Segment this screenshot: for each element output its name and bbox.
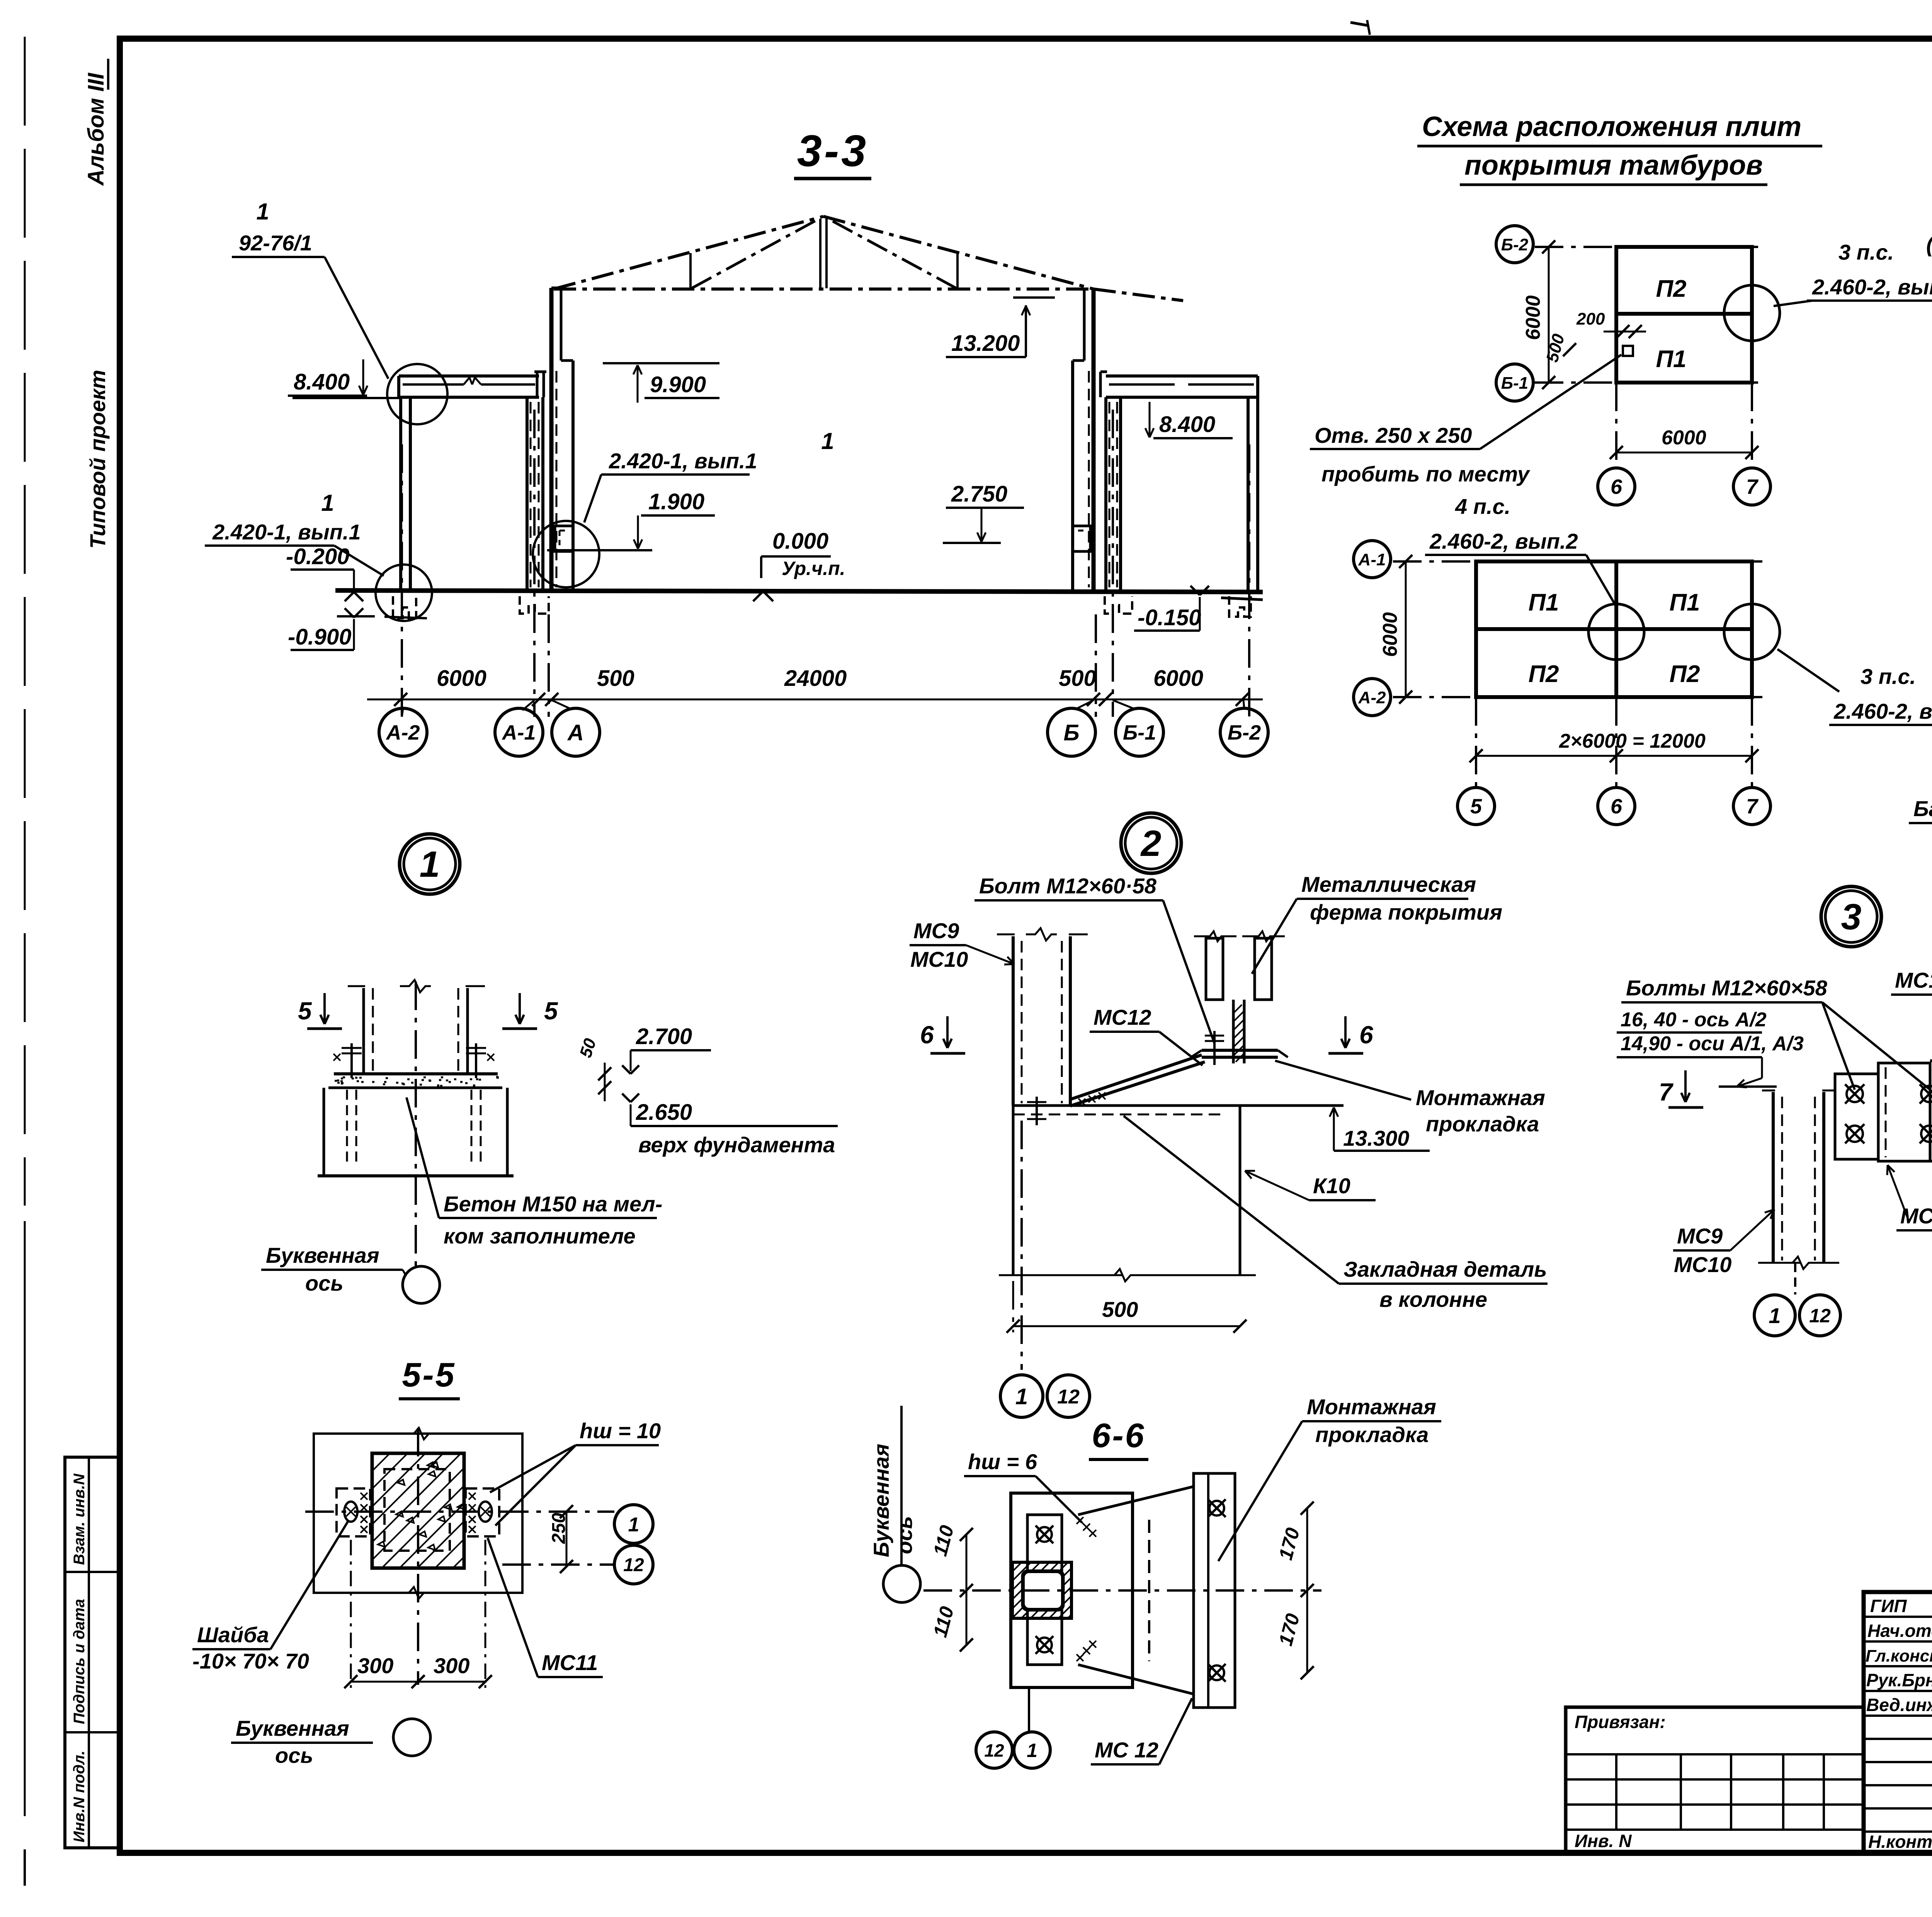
truss side posts xyxy=(689,253,692,288)
svg-text:-0.150: -0.150 xyxy=(1138,605,1201,630)
node3 axis bubbles 1 12 xyxy=(1754,1295,1795,1336)
svg-text:А: А xyxy=(567,720,584,745)
node3 axis dash-dot xyxy=(1794,1263,1796,1294)
axis line B-1 of plan xyxy=(1535,381,1766,384)
svg-text:Балка металлическая: Балка металлическая xyxy=(1913,796,1932,821)
svg-text:(шт. 30): (шт. 30) xyxy=(1926,232,1932,257)
title block name rows xyxy=(1864,1616,1932,1618)
svg-text:П1: П1 xyxy=(1669,589,1700,616)
svg-text:500: 500 xyxy=(1102,1297,1138,1322)
dim 2x6000=12000 xyxy=(1476,755,1752,757)
axis bubble B-1 plan xyxy=(1496,364,1533,401)
svg-text:92-76/1: 92-76/1 xyxy=(239,231,312,255)
crane console node 1 on wall A xyxy=(555,526,572,551)
svg-text:Б-1: Б-1 xyxy=(1123,721,1156,744)
svg-text:9.900: 9.900 xyxy=(650,372,706,397)
tambour roof slab left (A-2 to A) xyxy=(399,374,539,378)
svg-text:1: 1 xyxy=(1015,1384,1028,1409)
axis line B dash-dot xyxy=(1095,614,1097,717)
detail circle 4ps lower xyxy=(1588,604,1644,660)
ground line 0.000 xyxy=(335,590,1263,592)
svg-text:МС11: МС11 xyxy=(542,1650,598,1675)
node1 column shaft xyxy=(362,988,365,1074)
footing B-2 below ground xyxy=(1229,596,1251,617)
detail circle at footing A-2 xyxy=(376,565,432,621)
svg-text:П2: П2 xyxy=(1669,661,1700,687)
svg-text:4 п.с.: 4 п.с. xyxy=(1455,494,1510,519)
svg-text:6000: 6000 xyxy=(1153,666,1203,691)
svg-text:7: 7 xyxy=(1746,475,1759,498)
svg-text:Буквенная: Буквенная xyxy=(869,1444,893,1557)
5-5 centerline horizontal xyxy=(305,1510,614,1513)
svg-text:6000: 6000 xyxy=(1662,427,1706,449)
level line 8.400 tail xyxy=(293,397,402,399)
6-6 main body rect xyxy=(1011,1493,1133,1687)
truss center post xyxy=(819,219,821,288)
svg-text:прокладка: прокладка xyxy=(1426,1112,1539,1136)
svg-text:МС 12: МС 12 xyxy=(1095,1738,1158,1762)
5-5 axis circle empty xyxy=(393,1719,430,1756)
label 3 p.s. lower xyxy=(1777,649,1839,692)
svg-text:2.460-2, вып.2: 2.460-2, вып.2 xyxy=(1429,529,1578,553)
svg-text:2.460-2, вып.2: 2.460-2, вып.2 xyxy=(1833,699,1932,723)
axis bubble B-2 xyxy=(1220,708,1268,756)
svg-text:1: 1 xyxy=(420,844,440,885)
svg-text:200: 200 xyxy=(1576,310,1605,328)
vdim 6000 lower plan xyxy=(1405,561,1407,697)
svg-text:П2: П2 xyxy=(1528,661,1559,687)
svg-text:ось: ось xyxy=(892,1516,917,1554)
svg-text:1: 1 xyxy=(1769,1303,1781,1328)
svg-text:6: 6 xyxy=(920,1021,934,1049)
svg-text:8.400: 8.400 xyxy=(294,369,350,395)
paper edge line left xyxy=(24,37,26,1206)
node2 truss shoe plate xyxy=(1202,1049,1278,1052)
node2 truss chord angles xyxy=(1206,938,1223,1000)
tambour column B-2 xyxy=(1247,397,1250,590)
svg-text:МС12: МС12 xyxy=(1094,1005,1151,1029)
6-6 dashed rect inside xyxy=(1148,1520,1150,1661)
svg-text:А-2: А-2 xyxy=(385,721,420,744)
svg-text:5: 5 xyxy=(1470,795,1482,818)
svg-text:Альбом III: Альбом III xyxy=(83,72,109,186)
axis line B-1 dash-dot xyxy=(1112,410,1114,717)
svg-text:13.300: 13.300 xyxy=(1343,1126,1409,1150)
svg-text:Привязан:: Привязан: xyxy=(1575,1712,1666,1732)
truss bottom chord xyxy=(554,287,1094,291)
node3 bolts xyxy=(1847,1086,1863,1102)
svg-text:покрытия тамбуров: покрытия тамбуров xyxy=(1464,150,1763,181)
detail circle 3ps upper xyxy=(1724,285,1780,341)
title block outer border xyxy=(1864,1592,1932,1853)
svg-text:П1: П1 xyxy=(1656,346,1686,373)
node3 bracket plate 1 xyxy=(1835,1074,1878,1159)
node circle 3 xyxy=(1821,886,1881,947)
svg-text:6: 6 xyxy=(1611,475,1622,498)
node2 bolt at shoe xyxy=(1213,1031,1216,1065)
node2 truss web vertical xyxy=(1232,1000,1235,1063)
svg-text:500: 500 xyxy=(1059,666,1096,691)
truss diagonals xyxy=(692,219,819,288)
svg-text:1.900: 1.900 xyxy=(648,489,704,514)
svg-text:МС13: МС13 xyxy=(1900,1204,1932,1228)
svg-text:Инв.N подл.: Инв.N подл. xyxy=(71,1750,88,1842)
console node on wall B xyxy=(1073,526,1090,551)
node1 anchor bolts xyxy=(350,1043,353,1078)
svg-text:Типовой проект: Типовой проект xyxy=(85,370,110,549)
vdim 6000 upper plan xyxy=(1548,247,1550,383)
svg-text:Взам. инв.N: Взам. инв.N xyxy=(71,1473,88,1565)
axis stub 6 upper plan xyxy=(1615,383,1617,468)
node1 grout band speckled xyxy=(328,1087,502,1089)
svg-text:Болты М12×60×58: Болты М12×60×58 xyxy=(1626,976,1828,1000)
6-6 gusset trapezoid xyxy=(1078,1487,1194,1694)
axis line A-1 of plan xyxy=(1393,560,1766,563)
5-5 concrete speckles xyxy=(378,1462,464,1550)
detail circle at tambour eave xyxy=(387,364,447,424)
axis line A-1 dash-dot xyxy=(533,410,536,717)
top registration mark xyxy=(1350,22,1368,26)
6-6 flange plate inner xyxy=(1027,1515,1062,1665)
svg-text:8.400: 8.400 xyxy=(1159,412,1215,437)
svg-text:6000: 6000 xyxy=(437,666,486,691)
svg-text:Инв. N: Инв. N xyxy=(1575,1831,1632,1851)
svg-text:14,90 - оси А/1, А/3: 14,90 - оси А/1, А/3 xyxy=(1621,1032,1804,1055)
node2 axis dash-dot xyxy=(1020,1121,1023,1370)
wall axis B xyxy=(1092,288,1096,590)
svg-text:МС10: МС10 xyxy=(1674,1252,1731,1277)
5-5 column section hatched xyxy=(372,1453,464,1568)
svg-text:500: 500 xyxy=(597,666,634,691)
svg-text:5: 5 xyxy=(544,997,558,1025)
svg-text:3-3: 3-3 xyxy=(797,126,868,176)
svg-text:Закладная деталь: Закладная деталь xyxy=(1344,1257,1547,1281)
node2 top of concrete column line xyxy=(1013,1104,1344,1107)
column B-1 xyxy=(1104,397,1107,590)
column A-1 xyxy=(526,397,529,590)
svg-text:300: 300 xyxy=(357,1653,393,1678)
svg-text:МС9: МС9 xyxy=(913,919,959,943)
svg-text:2.750: 2.750 xyxy=(951,481,1007,507)
6-6 weld xmarks xyxy=(1077,1517,1096,1661)
6-6 bolts xyxy=(1037,1527,1052,1542)
svg-text:МС14: МС14 xyxy=(1895,968,1932,992)
svg-text:ось: ось xyxy=(305,1271,344,1295)
node2 bolt mark on column xyxy=(1036,1097,1038,1125)
tambour roof edge rib at wall B xyxy=(1100,371,1107,373)
5-5 embedded shaft dashed xyxy=(384,1469,450,1551)
svg-text:Гл.констр.: Гл.констр. xyxy=(1866,1647,1932,1665)
node1 axis circle empty xyxy=(403,1266,440,1303)
svg-text:Б: Б xyxy=(1063,720,1079,745)
svg-text:16, 40 - ось А/2: 16, 40 - ось А/2 xyxy=(1621,1009,1767,1031)
svg-text:Схема расположения плит: Схема расположения плит xyxy=(1422,111,1801,142)
6-6 right plate bolts xyxy=(1209,1501,1224,1516)
6-6 square tube section xyxy=(1012,1562,1071,1618)
roof truss dash-dot outline xyxy=(554,216,823,289)
svg-text:ось: ось xyxy=(275,1743,313,1767)
svg-text:ферма покрытия: ферма покрытия xyxy=(1310,900,1502,924)
node2 column MC9 xyxy=(1012,936,1015,1106)
5-5 plate MC11 right xyxy=(466,1488,499,1536)
6-6 axis circle empty xyxy=(900,1406,903,1566)
6-6 centerline horizontal xyxy=(923,1589,1321,1592)
svg-text:А-1: А-1 xyxy=(501,721,536,744)
svg-text:Монтажная: Монтажная xyxy=(1416,1085,1545,1110)
svg-text:hш = 10: hш = 10 xyxy=(580,1419,661,1443)
svg-text:Вед.инж.: Вед.инж. xyxy=(1866,1695,1932,1715)
svg-text:Б-2: Б-2 xyxy=(1501,235,1529,254)
svg-text:Б-2: Б-2 xyxy=(1228,721,1261,744)
svg-text:А-1: А-1 xyxy=(1358,550,1386,569)
node2 axis bubbles 1 12 xyxy=(1000,1375,1043,1417)
dim 6000 upper plan bottom xyxy=(1616,452,1752,454)
wall axis A xyxy=(549,288,554,590)
svg-text:Н.контр.: Н.контр. xyxy=(1868,1832,1932,1852)
axis line A-2 dash-dot xyxy=(401,444,403,717)
node2 concrete column K10 xyxy=(1012,1106,1015,1275)
node3 bracket plate 2 xyxy=(1878,1063,1930,1161)
svg-text:верх фундамента: верх фундамента xyxy=(638,1133,835,1157)
axis bubble B-2 plan xyxy=(1496,226,1533,263)
detail circle 3ps lower xyxy=(1724,604,1780,660)
svg-text:Болт М12×60·58: Болт М12×60·58 xyxy=(979,874,1157,898)
wall axis A hidden lines xyxy=(556,371,558,587)
axis line B-2 dash-dot xyxy=(1248,444,1250,717)
axis line A dash-dot xyxy=(548,614,550,717)
5-5 centerline vertical xyxy=(417,1428,419,1685)
svg-text:0.000: 0.000 xyxy=(772,529,828,554)
svg-text:12: 12 xyxy=(1809,1305,1831,1327)
hole 250x250 xyxy=(1623,346,1633,356)
svg-text:5: 5 xyxy=(298,997,312,1025)
axis line B-2 of plan xyxy=(1535,246,1766,248)
svg-text:7: 7 xyxy=(1746,795,1759,818)
node1 axis dash-dot xyxy=(415,981,417,1267)
svg-text:К10: К10 xyxy=(1313,1174,1350,1198)
tambour roof edge rib at wall xyxy=(536,372,539,397)
svg-text:5-5: 5-5 xyxy=(402,1356,456,1394)
svg-text:3: 3 xyxy=(1841,896,1862,937)
detail circle node 1 at console xyxy=(533,521,599,587)
6-6 right plate xyxy=(1194,1473,1235,1708)
node2 elevation 13.300 xyxy=(1333,1107,1335,1128)
svg-text:6: 6 xyxy=(1359,1021,1373,1049)
tambour column A-2 xyxy=(399,397,402,590)
svg-text:24000: 24000 xyxy=(784,666,847,691)
elevation 9.900 xyxy=(603,362,719,364)
svg-text:13.200: 13.200 xyxy=(951,331,1020,356)
lower plan rect xyxy=(1476,561,1752,697)
svg-text:6-6: 6-6 xyxy=(1092,1416,1145,1454)
svg-text:1: 1 xyxy=(321,490,334,516)
svg-text:1: 1 xyxy=(821,428,834,454)
dimension line bottom of section 3-3 xyxy=(367,699,1263,701)
svg-text:1: 1 xyxy=(1027,1740,1037,1761)
svg-text:пробить по месту: пробить по месту xyxy=(1321,462,1531,486)
svg-text:П2: П2 xyxy=(1656,276,1686,302)
5-5 plate MC11 left xyxy=(337,1488,370,1536)
footing B/B-1 below ground xyxy=(1105,596,1132,614)
svg-text:П1: П1 xyxy=(1528,589,1559,616)
svg-text:2.460-2, вып.2: 2.460-2, вып.2 xyxy=(1812,275,1932,299)
svg-text:2.420-1, вып.1: 2.420-1, вып.1 xyxy=(212,520,361,544)
axis line A-2 of plan xyxy=(1393,696,1766,698)
svg-text:hш = 6: hш = 6 xyxy=(968,1449,1037,1474)
svg-text:А-2: А-2 xyxy=(1358,688,1386,707)
svg-text:12: 12 xyxy=(623,1555,644,1575)
svg-text:Отв. 250 х 250: Отв. 250 х 250 xyxy=(1315,423,1472,447)
svg-text:Б-1: Б-1 xyxy=(1501,374,1528,393)
axis bubble B-1 xyxy=(1116,708,1163,756)
sidebar stamp table xyxy=(65,1457,119,1848)
axis stub 7 upper plan xyxy=(1751,383,1753,468)
svg-text:2.650: 2.650 xyxy=(636,1100,692,1125)
svg-text:ком заполнителе: ком заполнителе xyxy=(444,1224,636,1248)
svg-text:Ур.ч.п.: Ур.ч.п. xyxy=(782,558,845,579)
svg-text:1: 1 xyxy=(628,1514,639,1536)
node2 weld marks on column top xyxy=(1078,1092,1105,1106)
svg-text:6000: 6000 xyxy=(1522,295,1544,340)
5-5 axis bubbles 1 12 xyxy=(614,1505,653,1543)
node1 base plate xyxy=(334,1072,498,1075)
svg-text:Шайба: Шайба xyxy=(197,1623,269,1647)
footing A-1 below ground xyxy=(520,596,549,614)
axis stubs 5 6 7 lower plan xyxy=(1475,697,1477,788)
svg-text:12: 12 xyxy=(984,1740,1004,1761)
node2 sloped plate MC12 xyxy=(1070,1055,1202,1099)
svg-text:Нач.отд.: Нач.отд. xyxy=(1867,1621,1932,1641)
svg-text:2: 2 xyxy=(1140,823,1162,864)
svg-text:Металлическая: Металлическая xyxy=(1301,872,1476,896)
svg-text:в колонне: в колонне xyxy=(1379,1287,1487,1311)
axis bubble A-1 xyxy=(495,708,543,756)
svg-text:1: 1 xyxy=(256,199,269,225)
footing A-2 below ground xyxy=(393,596,416,618)
node3 column MC9 xyxy=(1772,1092,1775,1263)
svg-text:Рук.Брнг: Рук.Брнг xyxy=(1866,1670,1932,1690)
axis bubble A-2 xyxy=(379,708,427,756)
svg-text:300: 300 xyxy=(434,1653,469,1678)
svg-text:Монтажная: Монтажная xyxy=(1307,1395,1436,1419)
svg-text:прокладка: прокладка xyxy=(1315,1422,1429,1447)
svg-text:3 п.с.: 3 п.с. xyxy=(1861,664,1916,689)
svg-text:Буквенная: Буквенная xyxy=(236,1716,349,1740)
svg-text:ГИП: ГИП xyxy=(1870,1596,1907,1616)
5-5 bolt left oval xyxy=(344,1502,357,1522)
svg-text:7: 7 xyxy=(1659,1078,1674,1106)
tambour roof slab right (B to B-2) xyxy=(1106,374,1258,378)
5-5 foundation outline xyxy=(314,1434,522,1593)
node circle 1 xyxy=(400,834,460,894)
axis bubble B xyxy=(1048,708,1095,756)
svg-text:Бетон М150 на мел-: Бетон М150 на мел- xyxy=(444,1192,662,1216)
axis bubble A xyxy=(552,708,600,756)
svg-text:12: 12 xyxy=(1057,1386,1080,1408)
node3 bracket plate 3 xyxy=(1930,1061,1932,1161)
svg-text:-10× 70× 70: -10× 70× 70 xyxy=(192,1649,309,1673)
svg-text:2.700: 2.700 xyxy=(636,1024,692,1049)
svg-text:Буквенная: Буквенная xyxy=(266,1243,379,1267)
node1 foundation block xyxy=(323,1088,325,1176)
upper plan rect P2/P1 xyxy=(1616,247,1752,383)
svg-text:2×6000 = 12000: 2×6000 = 12000 xyxy=(1559,730,1706,752)
svg-text:Подпись и дата: Подпись и дата xyxy=(71,1599,88,1724)
svg-text:МС9: МС9 xyxy=(1677,1224,1723,1248)
svg-text:6: 6 xyxy=(1611,795,1622,818)
node1 anchor dashed in foundation xyxy=(346,1090,348,1167)
node circle 2 xyxy=(1121,813,1181,873)
svg-text:2.420-1, вып.1: 2.420-1, вып.1 xyxy=(609,449,757,473)
svg-text:МС10: МС10 xyxy=(910,947,968,971)
svg-text:3 п.с.: 3 п.с. xyxy=(1838,240,1894,264)
svg-text:-0.200: -0.200 xyxy=(286,544,349,569)
6-6 axis bubbles 12 1 xyxy=(1028,1687,1030,1732)
svg-text:-0.900: -0.900 xyxy=(288,624,351,650)
svg-text:6000: 6000 xyxy=(1379,612,1401,657)
privyazan table xyxy=(1566,1707,1864,1853)
